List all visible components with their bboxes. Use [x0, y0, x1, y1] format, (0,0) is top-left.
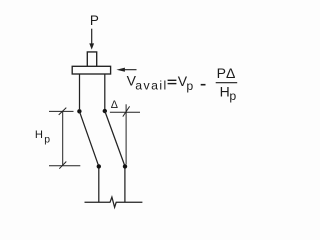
- base line with break symbol: [85, 197, 143, 207]
- left column edge (below hinge): [98, 169, 100, 203]
- label P (axial load): [90, 13, 99, 28]
- left slanted pier edge: [79, 111, 98, 166]
- Hp top extension line: [49, 110, 74, 112]
- svg-text:Δ: Δ: [111, 99, 118, 111]
- fraction bar: [216, 82, 238, 84]
- left column edge (above hinge): [79, 74, 81, 109]
- top-left hinge dot: [77, 109, 81, 113]
- bottom-left hinge dot: [97, 164, 101, 168]
- cap flange (pier cap): [72, 66, 110, 74]
- svg-text:p: p: [229, 89, 236, 103]
- minus sign: [201, 84, 206, 86]
- svg-text:p: p: [44, 134, 50, 145]
- svg-text:P: P: [90, 13, 99, 28]
- Hp top slash tick: [59, 108, 67, 115]
- Hp bottom slash tick: [59, 162, 66, 169]
- svg-text:p: p: [186, 79, 193, 93]
- Hp bottom extension line: [49, 165, 80, 167]
- svg-text:H: H: [220, 84, 230, 100]
- equals sign: [168, 80, 177, 85]
- right column edge (above hinge): [104, 74, 106, 109]
- fraction numerator P-delta: [217, 65, 236, 81]
- cap stub (bearing block): [87, 52, 96, 66]
- svg-text:P: P: [217, 65, 226, 81]
- delta dimension line: [110, 111, 140, 113]
- right slanted pier edge: [105, 111, 125, 166]
- svg-text:avail: avail: [135, 79, 167, 93]
- label Hp: [35, 129, 50, 145]
- equation V_avail = V_p -: [127, 73, 168, 93]
- svg-text:Δ: Δ: [226, 65, 235, 81]
- delta reference line (undeflected position): [125, 104, 127, 164]
- bottom-right hinge dot: [123, 164, 127, 168]
- Hp dimension line: [62, 111, 64, 165]
- delta slash tick: [123, 106, 130, 116]
- label delta: [111, 99, 118, 111]
- fraction denominator Hp: [220, 84, 237, 104]
- load arrow P: [89, 29, 94, 50]
- svg-text:H: H: [35, 129, 43, 141]
- shear arrow V: [116, 68, 136, 72]
- right column edge (below hinge): [124, 169, 126, 203]
- top-right hinge dot: [103, 109, 107, 113]
